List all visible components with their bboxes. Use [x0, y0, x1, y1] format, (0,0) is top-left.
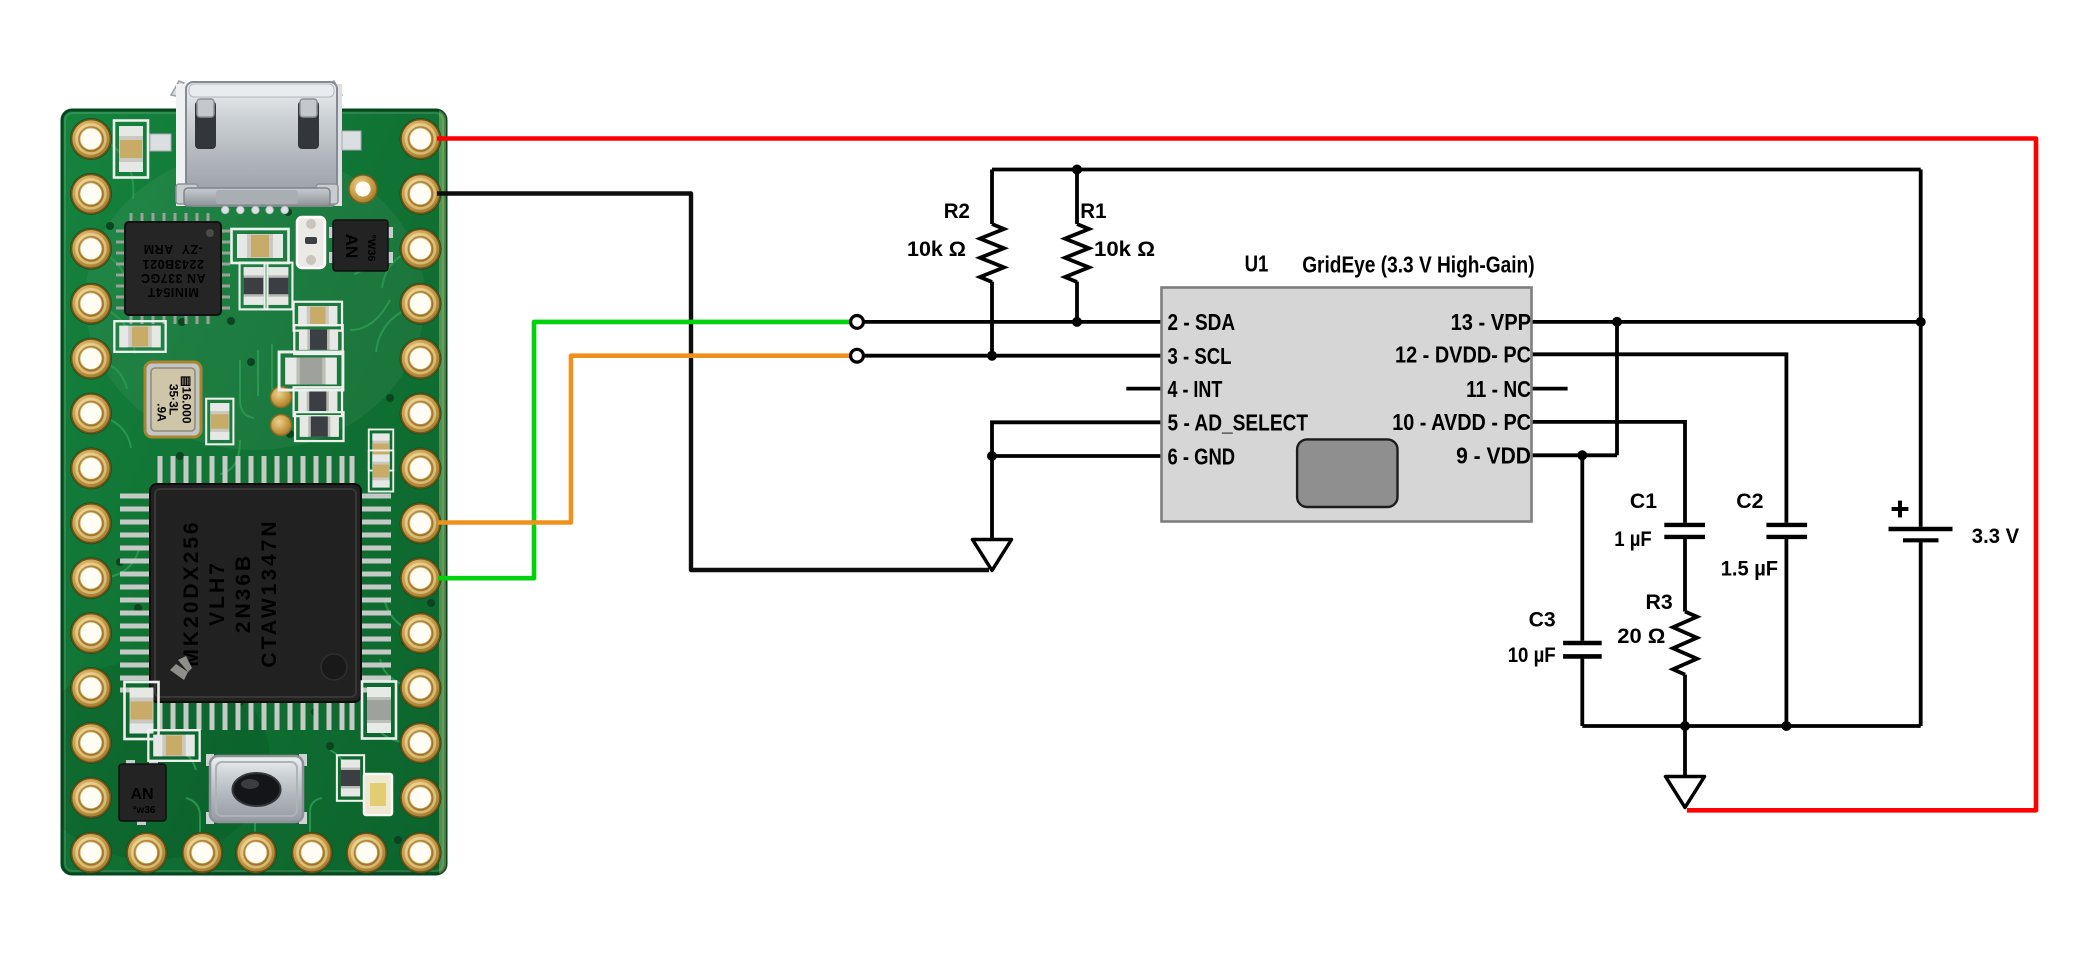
svg-text:VLH7: VLH7: [206, 560, 229, 626]
svg-text:6 - GND: 6 - GND: [1168, 443, 1236, 469]
svg-text:11 - NC: 11 - NC: [1466, 376, 1531, 402]
svg-text:▤16.000: ▤16.000: [180, 375, 194, 423]
svg-text:AN 337GC: AN 337GC: [140, 271, 205, 285]
svg-text:°W36: °W36: [365, 234, 377, 261]
svg-text:CTAW1347N: CTAW1347N: [258, 518, 281, 667]
svg-text:10k Ω: 10k Ω: [907, 237, 966, 261]
svg-text:2243B021: 2243B021: [142, 257, 204, 271]
svg-text:20 Ω: 20 Ω: [1617, 624, 1665, 648]
svg-text:R3: R3: [1646, 590, 1673, 614]
svg-text:C1: C1: [1630, 489, 1657, 513]
svg-text:1.5 µF: 1.5 µF: [1721, 557, 1778, 581]
svg-text:AN: AN: [130, 786, 153, 803]
svg-text:2 - SDA: 2 - SDA: [1168, 309, 1236, 335]
svg-text:GridEye (3.3 V High-Gain): GridEye (3.3 V High-Gain): [1302, 251, 1534, 277]
svg-text:.9A: .9A: [155, 403, 169, 422]
svg-text:2N36B: 2N36B: [232, 553, 255, 633]
svg-text:3.3 V: 3.3 V: [1972, 524, 2020, 548]
svg-text:10 µF: 10 µF: [1508, 643, 1556, 667]
svg-text:AN: AN: [342, 234, 361, 259]
svg-text:R2: R2: [944, 199, 970, 223]
svg-text:R1: R1: [1080, 199, 1106, 223]
svg-text:C3: C3: [1529, 608, 1556, 632]
svg-text:C2: C2: [1736, 489, 1763, 513]
svg-text:12 - DVDD- PC: 12 - DVDD- PC: [1395, 342, 1531, 368]
svg-text:MINI54T: MINI54T: [147, 285, 198, 299]
svg-text:4 - INT: 4 - INT: [1168, 376, 1223, 402]
svg-text:10k Ω: 10k Ω: [1094, 237, 1155, 261]
svg-text:1 µF: 1 µF: [1614, 527, 1652, 551]
svg-text:9 - VDD: 9 - VDD: [1456, 443, 1531, 469]
svg-text:13 - VPP: 13 - VPP: [1451, 309, 1531, 335]
svg-text:°w36: °w36: [133, 805, 156, 816]
svg-text:MK20DX256: MK20DX256: [180, 519, 203, 666]
svg-text:10 - AVDD - PC: 10 - AVDD - PC: [1392, 409, 1531, 435]
svg-text:-ZY ARM: -ZY ARM: [143, 242, 203, 256]
svg-text:3 - SCL: 3 - SCL: [1168, 343, 1232, 369]
svg-text:5 - AD_SELECT: 5 - AD_SELECT: [1168, 410, 1309, 436]
svg-text:U1: U1: [1245, 251, 1269, 277]
